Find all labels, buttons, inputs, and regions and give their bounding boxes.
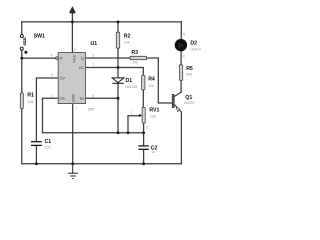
svg-text:1: 1 [76,106,78,110]
wire IC GND pin 1 down to bottom rail [72,104,74,164]
node junction mid net / RV1 wiper [127,131,130,134]
svg-text:1N4148: 1N4148 [125,85,137,89]
svg-text:10k: 10k [28,100,34,104]
svg-text:1: 1 [146,103,148,107]
svg-text:C1: C1 [45,139,52,145]
ground [68,164,78,179]
svg-text:2: 2 [51,94,53,98]
wire VCC drop: arrow stem to IC top pin 8 [71,11,73,52]
svg-text:1u: 1u [151,150,155,154]
resistor R3 [130,56,147,59]
wire bottom rail [22,163,182,165]
node junction SW1 / R1 / pin R [20,57,23,60]
wire left rail upper (top rail to SW1) [21,22,23,35]
svg-text:Q: Q [81,56,84,61]
resistor R4 [142,75,145,89]
transistor Q1 [172,92,181,112]
svg-text:R4: R4 [148,77,155,83]
svg-text:10k: 10k [132,61,138,65]
wire Q pin 3 to R3 left [86,57,131,59]
svg-text:D1: D1 [126,78,133,84]
svg-text:10k: 10k [150,114,156,118]
wire D1 cathode to TH junction and down to mid net [117,83,119,132]
svg-text:TR: TR [60,96,65,101]
svg-text:8: 8 [74,48,76,52]
node junction bottom rail / C2 [142,162,145,165]
svg-text:3: 3 [146,125,148,129]
power arrow VCC [70,7,76,13]
svg-text:D2: D2 [190,41,197,47]
svg-text:10n: 10n [45,146,51,150]
svg-text:R5: R5 [186,66,193,72]
svg-text:R2: R2 [124,34,131,40]
LED D2 [175,39,187,51]
node junction mid net / RV1 bottom [142,131,145,134]
svg-text:BC557: BC557 [184,101,196,105]
wire RV1 wiper to mid net [128,116,140,133]
svg-text:10k: 10k [124,40,130,44]
capacitor C1 [31,142,42,146]
node junction DC wire / R2-D1 [117,66,120,69]
node junction top rail / R2 [117,21,120,24]
wire top rail [22,21,182,23]
wire switch junction to IC pin R [22,57,56,59]
svg-text:R: R [60,56,63,61]
wire DC pin 7 to R4 top [86,68,144,76]
node junction top rail / VCC [71,21,74,24]
svg-text:Q1: Q1 [185,95,192,101]
wire D2 cathode to R5 top [180,51,182,65]
capacitor C2 [138,146,148,149]
svg-text:TH: TH [79,96,84,101]
resistor R5 [179,65,182,81]
IC U1 (555 timer) body [56,53,86,104]
svg-text:560: 560 [186,73,192,77]
svg-text:555: 555 [88,108,94,112]
svg-text:GND: GND [70,93,75,102]
svg-text:R1: R1 [27,93,34,99]
wire RV1 bottom to C2 top [143,123,145,146]
wire R2 column: top rail to R2 [117,22,119,32]
svg-text:U1: U1 [91,41,98,47]
svg-text:RV1: RV1 [149,107,159,113]
potentiometer RV1 [139,107,145,123]
resistor R2 [116,32,119,48]
wire C2 bottom to bottom rail [143,150,145,164]
node junction bottom rail / GND [71,162,74,165]
svg-text:LED-R: LED-R [190,47,201,51]
node junction bottom rail / C1 [35,162,38,165]
wire TH pin 6 to junction [86,97,119,99]
wire C1 bottom to bottom rail [35,146,37,164]
wire TR pin 2 left, down and right to mid net [43,98,144,133]
svg-text:5: 5 [52,74,54,78]
wire SW1 bottom to bottom rail through R1 [21,50,23,164]
node junction mid net / D1 column [117,131,120,134]
svg-text:4: 4 [51,54,53,58]
resistor R1 [20,93,23,109]
svg-text:VCC: VCC [71,54,76,62]
switch SW1 [20,35,27,54]
svg-text:R3: R3 [131,50,138,56]
svg-text:CV: CV [60,76,66,81]
wire R2 bottom to DC junction [117,48,119,78]
svg-text:DC: DC [79,65,85,70]
wire right rail: top rail corner down to D2 anode [180,22,182,39]
wire R4 bottom to RV1 top [142,90,144,108]
wire CV pin 5 to C1 column [36,78,58,141]
wire R5 bottom to Q1 collector [180,80,182,92]
svg-text:6: 6 [92,94,94,98]
pin R inversion bubble [56,57,58,59]
svg-text:2: 2 [131,111,133,115]
svg-text:3: 3 [92,54,94,58]
diode D1 [112,78,124,83]
wire Q1 emitter down to bottom rail [180,112,182,164]
svg-text:SW1: SW1 [34,33,45,39]
svg-text:22k: 22k [148,84,154,88]
node junction TH wire / D1 cathode [117,97,120,100]
svg-text:7: 7 [93,63,95,67]
wire R3 right to Q1 base [147,58,173,103]
